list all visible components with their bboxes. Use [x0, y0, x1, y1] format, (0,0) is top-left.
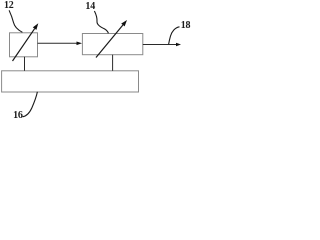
svg-text:16: 16	[13, 110, 23, 120]
svg-text:12: 12	[4, 0, 14, 11]
svg-text:18: 18	[181, 20, 191, 31]
svg-text:14: 14	[85, 1, 95, 12]
